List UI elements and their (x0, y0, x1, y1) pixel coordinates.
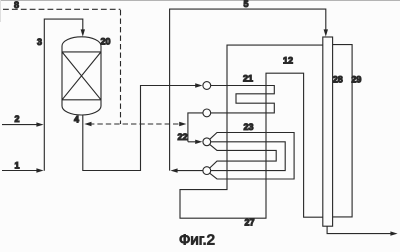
wire: dashed recycle line 8 horizontal (3, 8, 121, 10)
arrow left into node 4 (84, 122, 91, 126)
coil 23 middle hairpin (211, 142, 285, 171)
arrow right into junction 22 (179, 122, 186, 126)
svg-text:23: 23 (243, 122, 253, 132)
wire: dashed split line to node 4 and junction 22 (89, 123, 181, 125)
wire: column bottom outlet (327, 226, 391, 233)
svg-text:27: 27 (244, 217, 254, 227)
serpentine coil 21 (211, 86, 274, 113)
svg-text:21: 21 (243, 74, 253, 84)
reactor 20 vessel (62, 37, 101, 115)
circle 4 (203, 167, 211, 175)
circle 3 (203, 138, 211, 146)
svg-text:20: 20 (100, 36, 110, 46)
catalyst bed X (62, 52, 101, 100)
arrow into column top (324, 29, 328, 36)
arrow left into riser (170, 168, 177, 172)
svg-text:Фиг.2: Фиг.2 (179, 232, 215, 249)
coil 23 inner hairpin (210, 144, 277, 168)
arrow bottom outlet (390, 231, 397, 235)
svg-text:29: 29 (351, 74, 361, 84)
wire: feed line 2 with arrow (2, 124, 38, 126)
column 28 (323, 37, 333, 226)
wire: line 3 riser into reactor (44, 19, 83, 171)
arrow into circle 1 (195, 83, 202, 87)
arrow into reactor top (81, 29, 85, 36)
wire: riser and line 5 into column (170, 9, 326, 171)
wire: circle 4 outlet to overhead line 5 (177, 170, 203, 172)
svg-text:28: 28 (333, 74, 343, 84)
arrow into circle 3 (195, 140, 202, 144)
wire: reactor bottom outlet line 4 to circle 1 (83, 86, 196, 171)
scan border top (0, 0, 400, 2)
svg-text:5: 5 (243, 0, 248, 9)
svg-text:1: 1 (14, 161, 19, 171)
svg-text:2: 2 (14, 114, 19, 124)
svg-text:3: 3 (37, 37, 42, 47)
svg-text:4: 4 (74, 114, 79, 124)
circle 1 (203, 82, 211, 90)
wire: feed line 1 with arrow (2, 170, 38, 172)
wire: dashed recycle vertical drop (120, 10, 122, 124)
box 29 loop (333, 45, 353, 217)
circle 2 (203, 109, 211, 117)
svg-text:8: 8 (14, 0, 19, 10)
coil 23 outer hairpin (210, 133, 294, 180)
box 12 heat integration outline (180, 45, 323, 218)
scan border left (0, 0, 2, 22)
svg-text:12: 12 (283, 55, 293, 65)
svg-text:22: 22 (177, 132, 187, 142)
junction 22 wires (188, 113, 203, 142)
